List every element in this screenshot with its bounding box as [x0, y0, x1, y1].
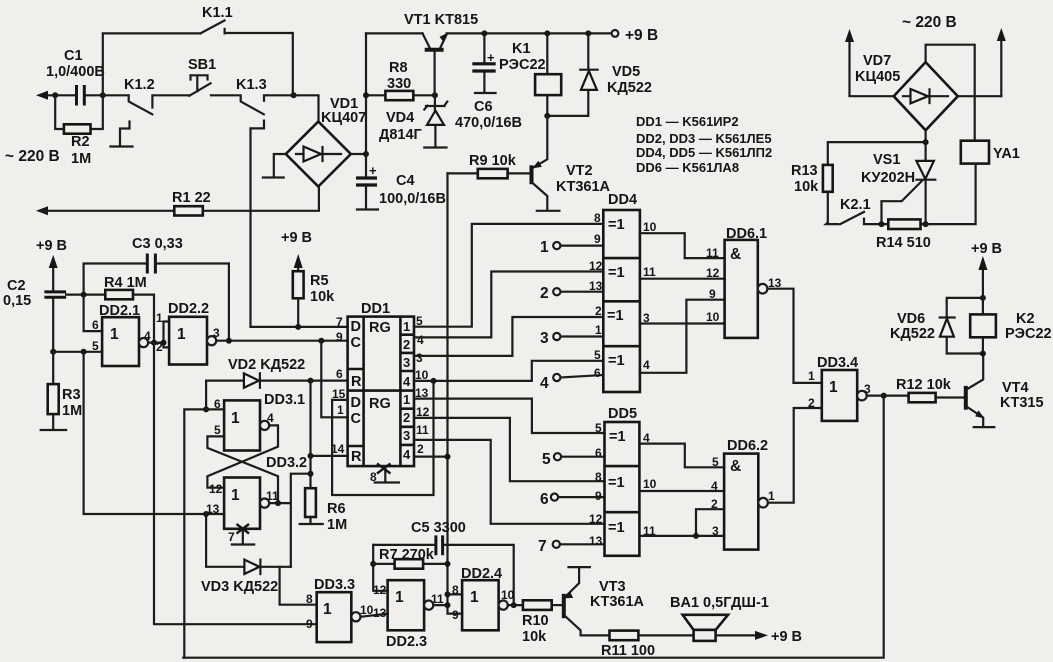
svg-text:&: & — [730, 246, 741, 263]
wire DD3.1 out cross — [207, 425, 278, 487]
svg-text:3: 3 — [403, 428, 410, 443]
capacitor C5 — [373, 520, 514, 605]
junction K2 bottom — [980, 351, 986, 357]
wire DD6.1 out to DD3.4 pin1 — [767, 289, 821, 383]
svg-text:6: 6 — [594, 366, 601, 380]
svg-text:R: R — [351, 374, 362, 390]
svg-text:R9 10k: R9 10k — [469, 153, 517, 169]
svg-text:1,0/400B: 1,0/400B — [46, 64, 105, 80]
svg-text:Д814Г: Д814Г — [379, 127, 422, 143]
junction DD2.2 inputs — [161, 340, 167, 346]
svg-text:9: 9 — [336, 330, 343, 344]
gate DD3.4 — [808, 355, 871, 421]
wire DD4 out3 to DD6.1 pin10 — [640, 322, 725, 324]
svg-text:~ 220 B: ~ 220 B — [5, 148, 60, 165]
svg-text:6: 6 — [595, 446, 602, 460]
terminal input 5 — [542, 451, 605, 468]
svg-text:DD6.1: DD6.1 — [726, 226, 767, 242]
svg-text:2: 2 — [417, 442, 424, 456]
wire K1.3 lower contact to DD1 pin7 — [251, 121, 348, 327]
svg-text:DD3.4: DD3.4 — [817, 355, 858, 371]
resistor R7 — [373, 547, 447, 569]
svg-text:4: 4 — [417, 333, 424, 347]
junction mains/R2 — [52, 92, 58, 98]
junction R5/pin7 — [295, 324, 301, 330]
svg-text:10k: 10k — [522, 629, 547, 645]
junction K1.1/K1.3/bridge — [291, 92, 297, 98]
junction out4 feedback — [431, 378, 437, 384]
svg-text:D: D — [351, 319, 361, 335]
resistor R13 — [791, 163, 833, 223]
svg-text:1M: 1M — [71, 151, 91, 167]
wire DD1 pin15 box — [332, 399, 348, 401]
wire DD4 out2 to DD6.1 pin12 — [640, 278, 725, 280]
svg-text:R12 10k: R12 10k — [896, 377, 952, 393]
svg-text:1: 1 — [595, 323, 602, 337]
junction R7 right — [445, 561, 451, 567]
svg-text:2: 2 — [808, 396, 815, 410]
wire DD3.2 out — [269, 502, 291, 504]
svg-text:DD3.3: DD3.3 — [314, 577, 355, 593]
svg-text:1: 1 — [110, 326, 119, 343]
terminal input 2 — [540, 285, 603, 302]
wire DD6.2 pin2 — [696, 509, 724, 536]
wire VD7 ac left — [850, 95, 894, 97]
wire +9V rail top — [447, 32, 612, 34]
junction DD2.3 out — [445, 602, 451, 608]
svg-text:9: 9 — [306, 617, 313, 631]
wire VD3 net to reset junction — [291, 474, 311, 567]
gate DD2.2 — [156, 301, 220, 365]
junction R8 left — [363, 92, 369, 98]
gate DD2.4 — [452, 566, 515, 630]
svg-text:5: 5 — [214, 423, 221, 437]
svg-text:3: 3 — [864, 382, 871, 396]
wire DD3.1 pin5 cross — [207, 436, 278, 503]
svg-text:9: 9 — [709, 287, 716, 301]
svg-text:3: 3 — [416, 351, 423, 365]
diode VD3 — [201, 514, 291, 595]
svg-text:K1.1: K1.1 — [202, 5, 233, 21]
terminal input 6 — [540, 491, 605, 508]
wire R9 to oscillator node — [448, 173, 463, 613]
wire DD5 out1 to DD6.2 pin5 — [639, 444, 724, 468]
svg-text:D: D — [351, 395, 361, 411]
svg-text:R5: R5 — [310, 273, 329, 289]
svg-text:C: C — [351, 411, 362, 427]
svg-text:7: 7 — [228, 530, 235, 544]
svg-text:DD2.2: DD2.2 — [168, 301, 209, 317]
svg-text:VD5: VD5 — [612, 64, 640, 80]
svg-text:4: 4 — [643, 358, 650, 372]
svg-text:KT315: KT315 — [1000, 395, 1044, 411]
svg-text:5: 5 — [542, 451, 551, 468]
wire pin5 row — [53, 351, 102, 353]
junction DD2.1 out/R4 — [151, 340, 157, 346]
svg-text:1: 1 — [470, 589, 479, 606]
svg-text:VT1 KT815: VT1 KT815 — [404, 12, 478, 28]
svg-text:11: 11 — [706, 246, 719, 260]
svg-text:4: 4 — [403, 374, 411, 389]
svg-text:RG: RG — [369, 320, 391, 336]
terminal input 1 — [540, 239, 603, 256]
svg-text:KT361A: KT361A — [590, 594, 645, 610]
resistor R2 — [55, 95, 103, 167]
svg-text:R8: R8 — [389, 60, 408, 76]
gate DD2.3 — [373, 580, 444, 650]
wire mains run to SB1 — [103, 94, 128, 96]
svg-text:1: 1 — [540, 239, 549, 256]
svg-text:DD2.1: DD2.1 — [99, 303, 140, 319]
svg-text:KЦ407: KЦ407 — [321, 110, 366, 126]
svg-text:470,0/16B: 470,0/16B — [455, 115, 522, 131]
svg-text:10k: 10k — [310, 289, 335, 305]
svg-text:YA1: YA1 — [993, 146, 1020, 162]
wire DD1 out7 to DD5 pin12 — [414, 440, 605, 524]
wire R4 row — [66, 294, 105, 296]
svg-text:C6: C6 — [474, 99, 493, 115]
svg-text:3: 3 — [403, 355, 410, 370]
wire DD2.1 pin6 — [84, 295, 103, 332]
svg-text:100,0/16B: 100,0/16B — [379, 191, 446, 207]
svg-text:2: 2 — [156, 340, 163, 354]
terminal input 3 — [540, 330, 603, 347]
svg-text:1: 1 — [808, 369, 815, 383]
junction C3 right — [226, 338, 232, 344]
svg-text:VT2: VT2 — [566, 163, 593, 179]
svg-text:4: 4 — [403, 447, 411, 462]
ground step under K1.2 — [110, 122, 132, 147]
svg-text:R13: R13 — [791, 163, 818, 179]
wire DD1 out1 to DD4 pin8 — [414, 224, 603, 327]
svg-text:11: 11 — [643, 265, 656, 279]
wire DD2.4 out — [508, 604, 523, 606]
svg-text:7: 7 — [538, 538, 547, 555]
svg-text:=1: =1 — [609, 429, 626, 445]
svg-text:DD2, DD3 — K561ЛЕ5: DD2, DD3 — K561ЛЕ5 — [636, 131, 772, 146]
wire DD2.2 input tie — [164, 322, 170, 348]
ground DD3.2 pin7 — [228, 524, 254, 545]
svg-text:8: 8 — [595, 470, 602, 484]
svg-text:3: 3 — [712, 524, 719, 538]
wire DD1 out6 to DD5 pin8 — [414, 418, 605, 481]
ground DD1 pin8 — [370, 464, 399, 485]
resistor R6 — [300, 488, 347, 533]
svg-text:9: 9 — [594, 232, 601, 246]
svg-text:РЭС22: РЭС22 — [1005, 326, 1052, 342]
gate DD3.2 — [206, 455, 307, 529]
junction clock branch — [318, 338, 324, 344]
wire DD3.2 pin13 — [206, 513, 224, 515]
relay contact K1.1 — [103, 5, 293, 95]
svg-text:BA1 0,5ГДШ-1: BA1 0,5ГДШ-1 — [670, 595, 769, 611]
svg-text:K1: K1 — [512, 41, 531, 57]
capacitor C4 — [356, 163, 446, 210]
svg-text:DD1: DD1 — [361, 301, 390, 317]
svg-text:12: 12 — [373, 583, 387, 597]
relay coil K2 — [970, 298, 1051, 354]
svg-text:5: 5 — [594, 348, 601, 362]
svg-text:=1: =1 — [608, 353, 625, 369]
wire node to bridge top — [294, 95, 319, 121]
junction R8/VD4/VT1 base — [432, 92, 438, 98]
svg-text:K2.1: K2.1 — [840, 197, 871, 213]
svg-text:1: 1 — [156, 311, 163, 325]
junction VD7/VS1 — [923, 139, 929, 145]
junction pin5/latch feed — [81, 349, 87, 355]
wire pin6 — [206, 408, 224, 410]
svg-text:KУ202H: KУ202H — [861, 170, 915, 186]
svg-text:DD2.4: DD2.4 — [461, 566, 502, 582]
svg-text:1: 1 — [337, 403, 344, 417]
svg-text:4: 4 — [267, 411, 274, 425]
register DD1 — [331, 301, 430, 466]
svg-text:2: 2 — [540, 285, 549, 302]
svg-text:DD6 — K561ЛА8: DD6 — K561ЛА8 — [636, 160, 739, 175]
wire reset net vertical — [309, 381, 311, 489]
xor block DD4 — [589, 192, 657, 392]
svg-text:1: 1 — [177, 326, 186, 343]
label IC list — [636, 114, 772, 175]
svg-text:DD3.1: DD3.1 — [264, 392, 305, 408]
junction DD3.4 out/feedback — [881, 393, 887, 399]
svg-text:5: 5 — [595, 421, 602, 435]
svg-text:РЭС22: РЭС22 — [499, 57, 546, 73]
svg-text:+9 B: +9 B — [625, 27, 658, 44]
svg-text:10: 10 — [643, 477, 657, 491]
svg-text:2: 2 — [403, 337, 410, 352]
junction VD2 cathode net — [308, 378, 314, 384]
terminal input 7 — [538, 538, 605, 555]
wire DD5 out3 to DD6.2 pin3 — [639, 535, 724, 537]
node +9V arrow K2 — [978, 256, 987, 298]
junction R4/C3 left — [81, 292, 87, 298]
svg-text:VD2 KД522: VD2 KД522 — [228, 357, 305, 373]
relay coil K1 — [499, 30, 561, 116]
svg-text:VD4: VD4 — [386, 110, 414, 126]
gate DD2.1 — [92, 303, 151, 366]
svg-text:1M: 1M — [62, 403, 82, 419]
wire to R13 — [828, 142, 926, 165]
svg-text:3: 3 — [540, 330, 549, 347]
svg-text:C2: C2 — [7, 278, 26, 294]
svg-text:11: 11 — [431, 592, 444, 606]
svg-text:1: 1 — [403, 392, 410, 407]
svg-text:5: 5 — [92, 339, 99, 353]
svg-text:1: 1 — [231, 410, 240, 427]
resistor R11 — [601, 631, 694, 659]
svg-text:+: + — [487, 50, 495, 65]
svg-text:9: 9 — [595, 489, 602, 503]
svg-text:R6: R6 — [327, 501, 346, 517]
transistor VT2 — [532, 116, 611, 211]
node mains input arrow left — [36, 91, 55, 100]
svg-text:1: 1 — [231, 487, 240, 504]
wire to DD3.3 pin9 — [154, 343, 317, 625]
diode VD2 — [206, 357, 348, 409]
diode VD5 — [547, 30, 652, 116]
nand DD6.1 — [706, 226, 782, 338]
resistor R3 — [41, 352, 82, 430]
speaker BA1 — [670, 595, 769, 641]
gate DD3.3 — [306, 577, 374, 642]
wire DD2.1 out — [148, 342, 163, 344]
svg-text:10: 10 — [643, 220, 657, 234]
bridge rectifier VD1 — [286, 96, 366, 187]
wire DD4 out1 to DD6.1 pin11 — [640, 233, 725, 258]
svg-text:VT3: VT3 — [599, 579, 626, 595]
bridge rectifier VD7 — [855, 53, 958, 130]
wire mains to C1 — [55, 94, 74, 96]
junction K1 bottom — [544, 113, 550, 119]
transistor VT1 — [404, 12, 478, 95]
wire DD2.4 pin8 — [448, 593, 463, 595]
svg-text:10: 10 — [706, 310, 720, 324]
svg-text:+9 B: +9 B — [771, 629, 802, 645]
junction DD6.2 pin2 tie — [693, 533, 699, 539]
svg-text:12: 12 — [706, 266, 720, 280]
svg-text:R2: R2 — [71, 134, 90, 150]
svg-text:KД522: KД522 — [890, 326, 935, 342]
capacitor C6 — [455, 30, 522, 131]
wire VD3 net to DD3.3 pin8 — [280, 567, 317, 605]
thyristor VS1 — [861, 152, 935, 224]
svg-text:4: 4 — [540, 375, 549, 392]
svg-text:C: C — [351, 335, 362, 351]
svg-text:R1 22: R1 22 — [172, 190, 211, 206]
svg-text:8: 8 — [594, 211, 601, 225]
junction C2/R3/pin5 — [50, 349, 56, 355]
svg-text:6: 6 — [336, 367, 343, 381]
svg-text:DD4: DD4 — [608, 192, 637, 208]
wire DD5 out2 to DD6.2 pin4 — [639, 490, 724, 492]
resistor R9 — [448, 153, 531, 178]
node +9V arrow C2 — [49, 255, 58, 292]
wire DD4 out4 to DD6.1 pin9 — [640, 300, 725, 373]
wire out4 feedback to pin15 — [332, 381, 433, 495]
svg-text:DD4, DD5 — K561ЛП2: DD4, DD5 — K561ЛП2 — [636, 145, 772, 160]
svg-text:K1.2: K1.2 — [124, 77, 155, 93]
svg-text:DD2.3: DD2.3 — [386, 634, 427, 650]
resistor R5 — [293, 254, 335, 327]
svg-text:KЦ405: KЦ405 — [855, 69, 900, 85]
svg-text:DD1 — K561ИР2: DD1 — K561ИР2 — [636, 114, 739, 129]
svg-text:C4: C4 — [396, 173, 415, 189]
terminal input 4 — [540, 374, 603, 392]
resistor R12 — [896, 377, 964, 402]
svg-text:6: 6 — [92, 318, 99, 332]
wire C3 left leg — [84, 264, 148, 295]
junction R14/VS1 cathode — [923, 221, 929, 227]
xor block DD5 — [589, 406, 657, 556]
svg-text:12: 12 — [209, 482, 223, 496]
node +9V arrow speaker — [716, 629, 802, 645]
wire VD7 ac right — [958, 95, 1002, 97]
wire clock to pin1 — [321, 341, 347, 418]
wire feedback right rail to bottom — [183, 396, 883, 658]
svg-text:4: 4 — [144, 329, 151, 343]
wire DD2.2 out to DD1 C — [216, 340, 347, 342]
svg-text:+9 B: +9 B — [281, 230, 312, 246]
pushbutton SB1 — [188, 57, 216, 96]
wire C5 left leg — [373, 545, 387, 591]
wire DD1 out3 to DD4 pin2 — [414, 317, 603, 356]
wire SB1 to K1.3 — [211, 94, 239, 96]
svg-text:=1: =1 — [608, 217, 625, 233]
svg-text:13: 13 — [589, 279, 603, 293]
wire to DD3.2 pin13 — [84, 352, 207, 514]
gate DD3.1 — [214, 392, 305, 451]
svg-text:RG: RG — [369, 396, 391, 412]
wire C1 to node — [87, 94, 103, 96]
svg-text:DD5: DD5 — [608, 406, 637, 422]
svg-text:R3: R3 — [62, 387, 81, 403]
resistor R8 — [366, 60, 435, 100]
junction out8/R9 line — [445, 454, 451, 460]
junction VD3 tap — [308, 471, 314, 477]
wire DD1 out4 to DD4 pin5 — [414, 361, 603, 381]
wire VD7 minus down — [924, 130, 926, 224]
svg-text:330: 330 — [387, 76, 411, 92]
svg-text:VD7: VD7 — [863, 53, 891, 69]
junction pin13 — [203, 511, 209, 517]
svg-text:R: R — [351, 449, 362, 465]
wire DD2.3 out — [433, 604, 447, 606]
svg-text:4: 4 — [711, 479, 718, 493]
svg-text:=1: =1 — [608, 265, 625, 281]
relay contact K1.3 — [236, 77, 294, 114]
wire DD1 out5 to DD5 pin5 — [414, 399, 605, 433]
resistor R4 — [104, 275, 154, 343]
wire DD3.4 out — [867, 395, 909, 397]
svg-text:KД522: KД522 — [607, 80, 652, 96]
svg-text:12: 12 — [589, 512, 603, 526]
svg-text:SB1: SB1 — [188, 57, 216, 73]
svg-text:13: 13 — [589, 534, 603, 548]
svg-text:DD6.2: DD6.2 — [727, 438, 768, 454]
capacitor C1 — [46, 48, 105, 106]
svg-text:R14 510: R14 510 — [876, 235, 931, 251]
junction C1/K1.1 — [100, 92, 106, 98]
junction DD2.4 out/C5 — [511, 602, 517, 608]
wire DD3.3 out — [361, 614, 388, 617]
svg-text:1: 1 — [403, 319, 410, 334]
junction K2.1/R14/gate — [879, 221, 885, 227]
diode VD6 — [890, 298, 983, 354]
svg-text:9: 9 — [452, 608, 459, 622]
svg-text:R11 100: R11 100 — [601, 643, 655, 659]
resistor R10 — [522, 600, 562, 645]
wire VT1 collector — [366, 32, 423, 34]
svg-text:6: 6 — [540, 491, 549, 508]
wire bridge right to rail — [351, 153, 366, 155]
svg-text:C3 0,33: C3 0,33 — [132, 236, 183, 252]
svg-text:~ 220 B: ~ 220 B — [902, 14, 957, 31]
svg-text:10: 10 — [501, 588, 515, 602]
wire VD7 ac top to YA1 rail — [926, 45, 975, 141]
svg-text:3: 3 — [213, 326, 220, 340]
svg-text:VS1: VS1 — [873, 152, 900, 168]
svg-text:12: 12 — [589, 259, 603, 273]
resistor R14 — [876, 219, 931, 251]
svg-text:VD6: VD6 — [897, 311, 925, 327]
svg-text:7: 7 — [336, 315, 343, 329]
terminal +9V top — [612, 27, 659, 44]
junction DD2.4 pin8 — [445, 591, 451, 597]
svg-text:8: 8 — [370, 470, 377, 484]
svg-text:R10: R10 — [522, 613, 549, 629]
node mains arrow up right — [997, 28, 1006, 96]
